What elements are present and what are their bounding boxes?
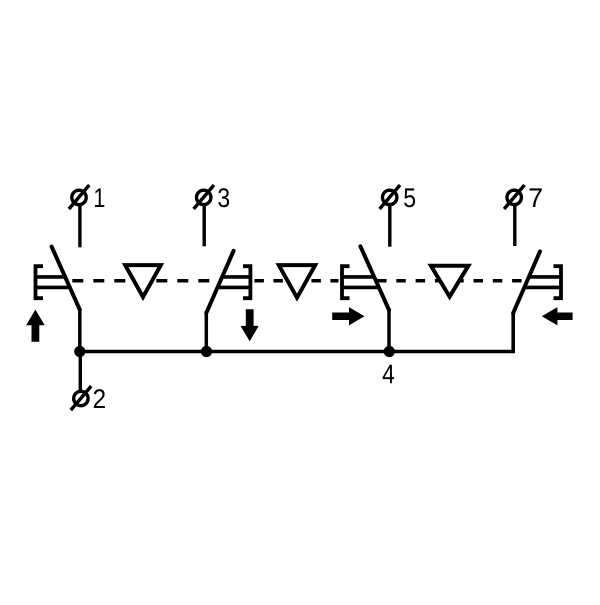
switch S3 plunger lower line [342,286,380,290]
junction dot at S1 [74,346,85,357]
terminal 2 circle [74,391,88,405]
terminal 5 circle [383,190,397,204]
actuator symbol triangle 2 [279,265,315,298]
switch S1 contact lever [52,247,80,310]
left arrow below S4 bracket [542,307,573,325]
mechanical linkage dashed line segment between S1 and S2 [72,279,218,283]
switch S3 contact lever [360,246,389,310]
terminal 5 lead wire [388,205,391,247]
switch S3 actuator bracket [342,266,350,298]
terminal 1 lead wire [78,205,81,247]
terminal 1 label [95,188,104,207]
switch S2 lower wire [205,311,209,352]
terminal 3 circle [197,190,211,204]
bottom bus wire with corner up to S4 [80,312,513,352]
switch S3 lower wire [387,308,391,352]
switch S4 contact lever [513,251,540,313]
switch S4 plunger lower line [524,286,562,290]
right arrow below S3 bracket [332,307,364,325]
switch S2 plunger lower line [217,286,250,290]
actuator symbol triangle 3 [431,266,469,297]
terminal 5 label [404,188,415,207]
switch S1 lower wire [78,308,82,352]
switch S3 plunger upper line [342,275,375,279]
mechanical linkage dashed line segment between S3 and S4 [377,279,528,283]
terminal 7 label [530,188,542,207]
switch S1 plunger upper line [36,275,67,279]
terminal 7 lead wire [513,205,516,246]
switch S4 actuator bracket [554,266,562,298]
up arrow below S1 bracket [26,310,45,342]
switch S2 contact lever [206,251,233,313]
switch S2 actuator bracket [243,266,250,298]
junction dot at S2 [201,346,212,357]
terminal 2 lead wire [79,352,82,391]
terminal 3 label [218,188,229,207]
terminal 1 circle [72,190,86,204]
actuator symbol triangle 1 [125,265,161,297]
terminal 7 circle [507,190,521,204]
switch S1 actuator bracket [36,266,44,298]
junction dot at S3 node 4 [384,346,395,357]
switch S4 plunger upper line [528,275,561,279]
switch S2 plunger upper line [222,275,251,279]
terminal 5 slash [380,185,400,209]
terminal 3 lead wire [202,205,205,246]
node 4 label [383,365,395,384]
switch S1 plunger lower line [36,286,72,290]
terminal 3 slash [194,185,214,209]
mechanical linkage dashed line segment between S2 and S3 [254,279,338,283]
down arrow below S2 bracket [241,309,259,341]
terminal 7 slash [504,185,524,209]
terminal 1 slash [69,185,89,209]
terminal 2 label [94,389,105,408]
terminal 2 slash [71,386,91,410]
